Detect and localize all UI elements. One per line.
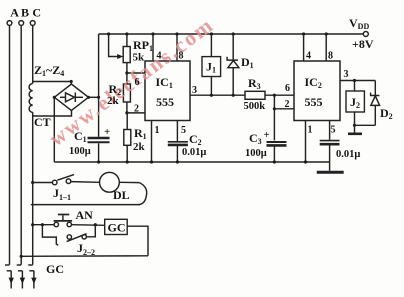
svg-text:5: 5 bbox=[331, 125, 336, 136]
wire VDD top rail bbox=[99, 32, 364, 35]
svg-text:4: 4 bbox=[157, 51, 162, 62]
wire ground rail bottom bbox=[54, 160, 329, 163]
pushbutton AN bbox=[31, 215, 105, 227]
svg-text:2k: 2k bbox=[107, 95, 120, 107]
bridge rectifier Z1-Z4 bbox=[53, 84, 90, 111]
svg-text:J1: J1 bbox=[206, 60, 216, 75]
wire control return rail bbox=[20, 255, 148, 258]
wire IC2 pin3 bbox=[340, 79, 375, 82]
wire DL return bbox=[31, 204, 140, 206]
contact break phase B bbox=[17, 265, 25, 289]
node VDD terminal bbox=[363, 32, 368, 37]
op-amp U1 555 IC1 box bbox=[145, 61, 190, 121]
svg-text:3: 3 bbox=[192, 85, 197, 96]
ground under J2 bbox=[348, 125, 362, 134]
svg-text:555: 555 bbox=[305, 95, 323, 109]
wire plus rail riser bbox=[98, 34, 100, 97]
svg-text:100μ: 100μ bbox=[245, 148, 267, 159]
svg-text:VDD: VDD bbox=[349, 16, 369, 31]
svg-text:8: 8 bbox=[328, 51, 333, 62]
wire CT top to bridge bbox=[33, 80, 73, 85]
relay box GC bbox=[105, 219, 148, 256]
svg-text:A: A bbox=[10, 6, 19, 20]
svg-text:0.01μ: 0.01μ bbox=[182, 147, 206, 158]
wire IC2 pin1 bbox=[305, 121, 307, 163]
svg-text:4: 4 bbox=[306, 51, 311, 62]
svg-text:R1: R1 bbox=[134, 126, 147, 141]
svg-text:D1: D1 bbox=[241, 55, 254, 70]
svg-text:D2: D2 bbox=[380, 106, 393, 121]
relay J2 bbox=[346, 81, 364, 127]
svg-text:CT: CT bbox=[34, 115, 51, 129]
wire phase B bbox=[20, 26, 22, 265]
svg-text:0.01μ: 0.01μ bbox=[336, 149, 360, 160]
switch J2-2 bbox=[42, 225, 95, 246]
svg-text:IC1: IC1 bbox=[156, 75, 173, 90]
node pin2 IC2 bbox=[273, 95, 294, 140]
contact break phase A bbox=[5, 265, 14, 289]
node C terminal bbox=[30, 21, 35, 26]
svg-text:1: 1 bbox=[155, 125, 160, 136]
wire IC1 pin8 bbox=[176, 34, 178, 61]
svg-text:J1–1: J1–1 bbox=[53, 186, 71, 202]
svg-text:C: C bbox=[32, 6, 41, 20]
capacitor C1 bbox=[88, 97, 110, 162]
svg-text:555: 555 bbox=[156, 95, 174, 109]
node pin2 IC1 bbox=[125, 111, 145, 114]
switch J1-1 bbox=[31, 175, 99, 185]
contactor coil DL bbox=[100, 172, 147, 204]
transformer CT winding bbox=[29, 84, 33, 113]
wire IC1 pin1 bbox=[151, 121, 153, 163]
wire phase A bbox=[9, 26, 11, 265]
ground main bbox=[317, 162, 344, 172]
svg-text:IC2: IC2 bbox=[305, 75, 322, 90]
svg-text:AN: AN bbox=[76, 208, 94, 222]
svg-text:GC: GC bbox=[108, 221, 126, 235]
svg-text:8: 8 bbox=[179, 51, 184, 62]
wire IC1 pin3 bbox=[190, 94, 245, 97]
svg-text:500k: 500k bbox=[244, 101, 266, 112]
svg-text:J2–2: J2–2 bbox=[77, 241, 95, 257]
svg-text:2k: 2k bbox=[133, 141, 146, 153]
svg-text:R3: R3 bbox=[248, 76, 261, 91]
svg-text:J2: J2 bbox=[350, 95, 360, 110]
capacitor C4 0.01u bbox=[320, 121, 340, 163]
pin labels IC1 bbox=[134, 51, 197, 137]
svg-text:100μ: 100μ bbox=[69, 146, 91, 157]
svg-text:3: 3 bbox=[344, 69, 349, 80]
svg-text:6: 6 bbox=[135, 77, 140, 88]
svg-text:C2: C2 bbox=[189, 132, 202, 147]
op-amp U2 555 IC2 box bbox=[294, 61, 340, 121]
diode D1 zener bbox=[227, 34, 239, 95]
diode D2 zener bbox=[355, 81, 380, 126]
resistor R2 bbox=[123, 73, 130, 113]
relay J1 bbox=[202, 34, 221, 95]
pin labels IC2 bbox=[285, 51, 349, 136]
svg-text:1: 1 bbox=[308, 125, 313, 136]
svg-text:2: 2 bbox=[285, 99, 290, 110]
contact break phase C bbox=[28, 265, 36, 289]
capacitor C2 bbox=[168, 121, 188, 163]
wire bridge plus bbox=[89, 96, 101, 99]
capacitor C3 bbox=[267, 142, 287, 162]
node pin6 IC1 bbox=[125, 71, 145, 74]
resistor R1 bbox=[124, 113, 131, 162]
svg-text:Z1~Z4: Z1~Z4 bbox=[34, 63, 64, 78]
wire bridge minus down bbox=[53, 97, 55, 162]
wire IC2 pin4 bbox=[303, 34, 305, 61]
svg-text:B: B bbox=[21, 6, 29, 20]
svg-text:+: + bbox=[264, 129, 270, 141]
svg-text:6: 6 bbox=[285, 83, 290, 94]
svg-text:GC: GC bbox=[46, 262, 64, 276]
wire IC2 pin8 bbox=[325, 34, 327, 61]
potentiometer RP1 bbox=[109, 34, 131, 73]
node A terminal bbox=[7, 21, 12, 26]
svg-text:DL: DL bbox=[113, 188, 130, 202]
node B terminal bbox=[19, 21, 24, 26]
svg-text:2: 2 bbox=[134, 104, 139, 115]
svg-text:5k: 5k bbox=[133, 52, 146, 64]
svg-text:+8V: +8V bbox=[352, 37, 374, 51]
svg-text:5: 5 bbox=[181, 125, 186, 136]
wire CT bottom to bridge bbox=[33, 110, 72, 116]
wire IC1 pin4 bbox=[152, 34, 154, 61]
resistor R3 bbox=[245, 91, 294, 99]
svg-text:C3: C3 bbox=[249, 131, 262, 146]
svg-text:+: + bbox=[104, 126, 110, 138]
wire phase C bbox=[32, 26, 34, 265]
